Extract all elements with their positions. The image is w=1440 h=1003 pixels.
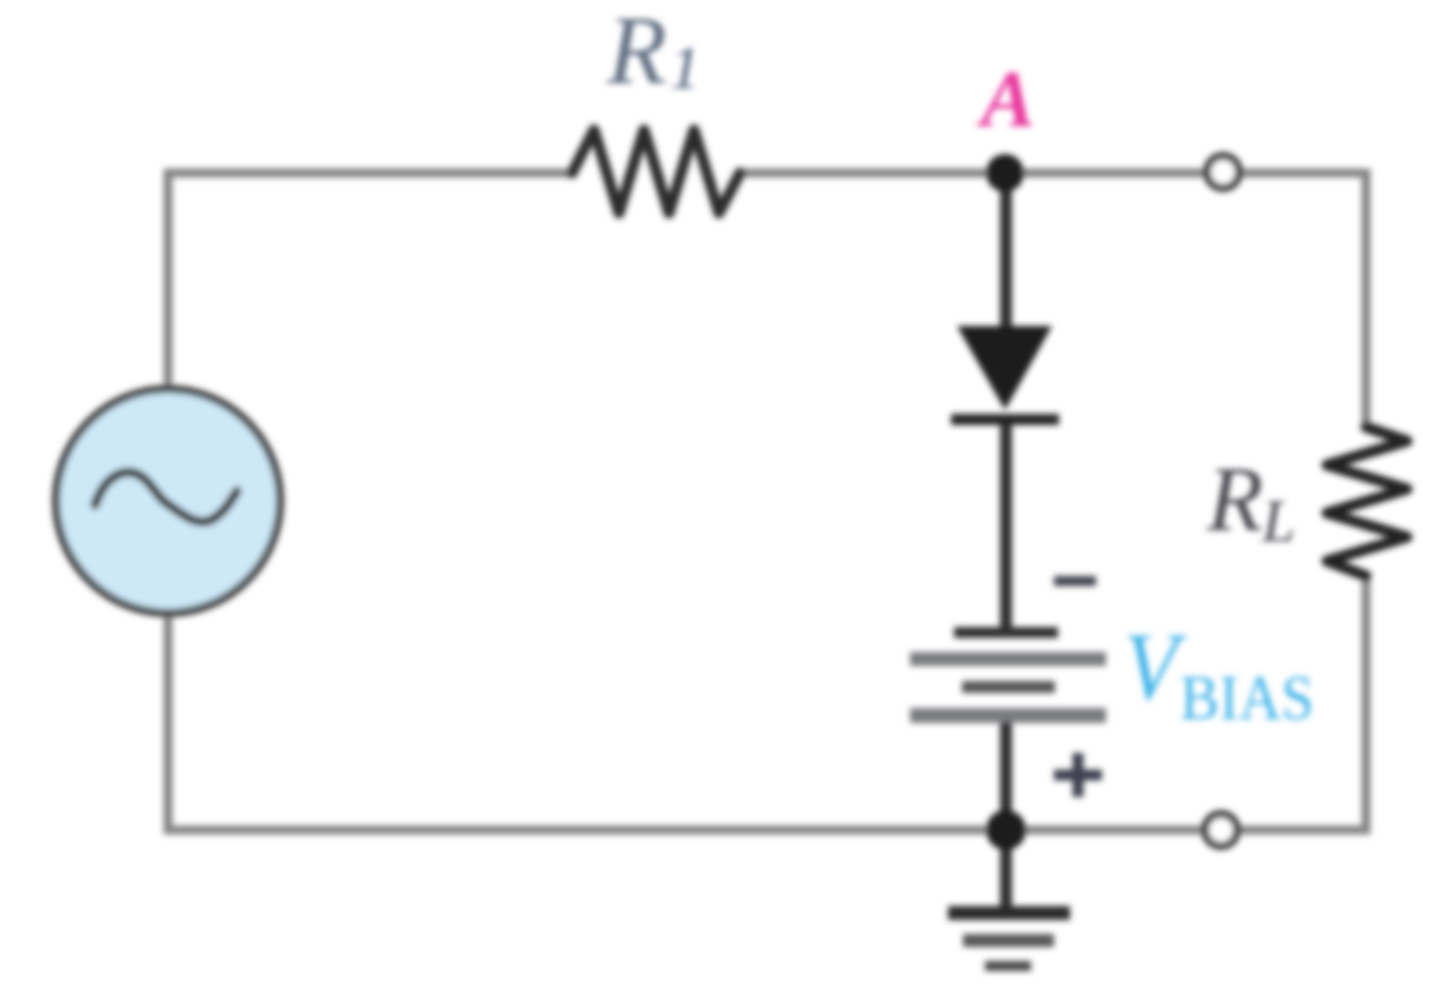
battery VBIAS plate 3 (short gray) bbox=[962, 681, 1055, 693]
label RL bbox=[1206, 448, 1295, 554]
wire: battery to ground through bottom junction bbox=[1000, 722, 1012, 908]
wire: top segment from R1 through node A to top-right corner, down to RL bbox=[740, 173, 1366, 424]
svg-text:A: A bbox=[976, 54, 1035, 144]
node A junction dot bbox=[986, 154, 1024, 192]
label minus sign bbox=[1054, 576, 1096, 586]
label VBIAS bbox=[1124, 613, 1314, 733]
wire: left + top-left segment to R1 bbox=[168, 173, 574, 392]
terminal circle bottom right bbox=[1205, 814, 1237, 846]
ground bar 3 bbox=[985, 961, 1031, 971]
label node A bbox=[976, 54, 1035, 144]
ground bar 2 bbox=[963, 934, 1054, 947]
ground bar 1 bbox=[948, 906, 1070, 920]
svg-text:1: 1 bbox=[670, 35, 700, 101]
diode D1 (anode triangle) bbox=[957, 326, 1052, 410]
terminal circle top right bbox=[1207, 156, 1239, 188]
diode D1 cathode bar bbox=[951, 414, 1059, 425]
junction dot at bottom node bbox=[986, 810, 1026, 850]
svg-text:R: R bbox=[606, 0, 667, 105]
wire: right below RL, bottom segment, up to source bottom bbox=[168, 577, 1366, 830]
battery VBIAS plate 1 (short black, negative) bbox=[954, 627, 1058, 638]
svg-text:V: V bbox=[1124, 613, 1187, 720]
resistor R1 bbox=[572, 130, 740, 213]
svg-text:R: R bbox=[1206, 448, 1263, 550]
ac source VS bbox=[56, 389, 280, 613]
wire: diode cathode to battery bbox=[1000, 424, 1012, 632]
label R1 bbox=[606, 0, 700, 105]
svg-text:BIAS: BIAS bbox=[1180, 662, 1314, 733]
svg-text:L: L bbox=[1261, 488, 1295, 554]
battery VBIAS plate 2 (long gray) bbox=[910, 652, 1106, 666]
resistor RL bbox=[1327, 427, 1407, 576]
label plus sign bbox=[1054, 753, 1102, 797]
wire: black branch from node A down to diode bbox=[1000, 173, 1012, 332]
battery VBIAS plate 4 (long gray) bbox=[910, 708, 1106, 723]
